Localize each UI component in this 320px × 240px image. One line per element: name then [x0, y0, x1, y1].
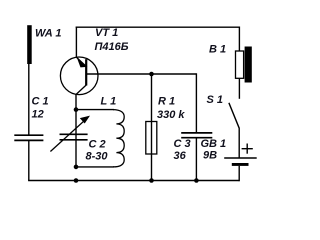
resistor R1: [146, 122, 157, 155]
earphone B1: [236, 47, 252, 83]
node junction dot C3 bottom rail: [194, 178, 199, 183]
capacitor C3: [181, 133, 212, 138]
wire R1 vertical: [151, 74, 153, 181]
antenna WA1: [27, 25, 32, 64]
svg-text:VT 1: VT 1: [95, 27, 118, 39]
node junction dot collector/L1/C2: [74, 107, 79, 112]
switch S1: [229, 103, 239, 128]
wire L1 bottom: [76, 166, 114, 168]
node junction dot L1/C2 bottom: [74, 165, 79, 170]
svg-text:L 1: L 1: [101, 96, 117, 108]
wire switch to battery: [238, 128, 240, 158]
svg-text:C 1: C 1: [32, 96, 49, 108]
node junction dot bottom rail left: [74, 178, 79, 183]
svg-text:330 k: 330 k: [157, 109, 185, 121]
capacitor C1: [14, 135, 43, 140]
battery GB1: [224, 144, 257, 166]
wire C1 to bottom rail: [28, 140, 30, 180]
svg-text:12: 12: [32, 109, 44, 121]
capacitor C2 variable: [50, 116, 90, 152]
svg-text:R 1: R 1: [158, 96, 175, 108]
wire C3 bottom vertical: [195, 138, 197, 181]
svg-text:C 2: C 2: [89, 139, 106, 151]
wire collector down: [75, 94, 77, 109]
svg-text:9В: 9В: [203, 149, 217, 161]
transistor VT1: [60, 57, 98, 95]
wire emitter to top rail: [75, 27, 77, 58]
svg-text:8-30: 8-30: [86, 151, 109, 163]
svg-text:36: 36: [174, 150, 187, 162]
wire battery to bottom rail: [238, 166, 240, 181]
wire antenna to C1: [28, 64, 30, 135]
svg-text:П416Б: П416Б: [95, 41, 129, 53]
wire B1 top vertical: [238, 27, 240, 52]
wire C3 top vertical: [195, 73, 197, 133]
top rail wire: [76, 26, 240, 28]
inductor L1: [113, 110, 124, 167]
wire B1 to switch: [238, 78, 240, 99]
bottom rail wire: [28, 180, 240, 182]
svg-text:S 1: S 1: [207, 94, 224, 106]
svg-text:GB 1: GB 1: [201, 138, 227, 150]
svg-text:B 1: B 1: [209, 44, 226, 56]
wire C2 vertical: [75, 110, 77, 167]
svg-text:C 3: C 3: [174, 138, 191, 150]
svg-text:WA 1: WA 1: [35, 28, 62, 40]
wire L1 top: [76, 109, 114, 111]
node junction dot R1 bottom rail: [149, 178, 154, 183]
wire base lead: [86, 73, 196, 75]
node junction dot base/R1: [149, 72, 154, 77]
